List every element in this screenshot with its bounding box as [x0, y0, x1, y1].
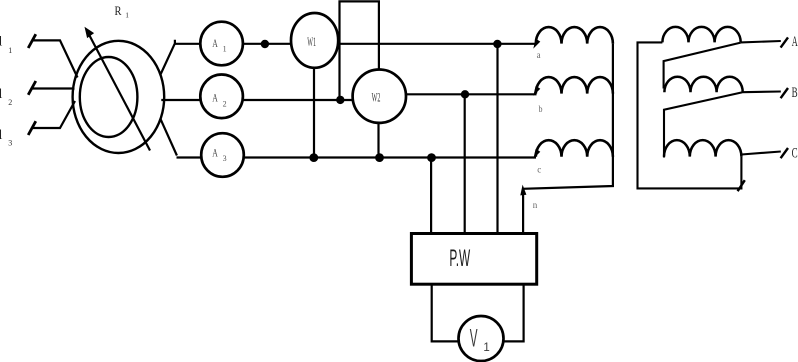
node dot row1 left of W1: [261, 40, 269, 48]
svg-text:2: 2: [8, 98, 12, 107]
svg-text:3: 3: [8, 139, 12, 148]
svg-text:2: 2: [223, 99, 227, 108]
wire W2 potential stub down: [377, 123, 379, 158]
svg-text:B: B: [792, 85, 798, 101]
svg-text:A: A: [212, 145, 218, 159]
ammeter A2: [200, 75, 243, 119]
terminal C: [741, 152, 780, 155]
svg-text:a: a: [537, 50, 541, 60]
svg-text:W1: W1: [307, 34, 316, 49]
switch tick L2: [28, 81, 36, 95]
wire variac to row2: [161, 99, 353, 101]
switch tick L3: [28, 121, 36, 135]
svg-text:V: V: [470, 325, 478, 353]
tick delta corner: [738, 180, 745, 191]
wire L2: [32, 87, 75, 89]
svg-text:W2: W2: [372, 89, 381, 104]
svg-text:l: l: [0, 87, 3, 102]
variac R1 outer: [73, 41, 165, 153]
svg-text:R: R: [115, 4, 123, 18]
svg-text:c: c: [537, 165, 541, 175]
neutral terminal arrow n: [520, 185, 526, 196]
node dot row3 tap: [427, 153, 436, 162]
svg-text:b: b: [539, 104, 543, 114]
svg-text:A: A: [212, 91, 218, 105]
wire P.W to V1 right: [503, 284, 523, 341]
wire variac to row1: [161, 40, 175, 75]
wire row2 tap to P.W: [464, 94, 466, 235]
winding c: [536, 140, 613, 157]
svg-text:3: 3: [223, 154, 227, 163]
wire P.W to V1 left: [432, 284, 459, 341]
svg-text:A: A: [212, 36, 218, 50]
wire delta diag 2: [664, 92, 742, 157]
variac R1 inner: [80, 57, 138, 137]
wire L1: [32, 40, 78, 77]
wire variac to row3: [161, 119, 177, 156]
wire row1: [175, 43, 537, 45]
svg-text:1: 1: [483, 342, 489, 354]
wire row3: [177, 156, 537, 158]
box P.W: [411, 234, 536, 285]
wire L3: [32, 101, 75, 128]
node dot row3 under W1: [309, 153, 318, 162]
wattmeter W2: [353, 70, 406, 123]
svg-text:1: 1: [125, 11, 129, 20]
svg-text:P.W: P.W: [449, 245, 470, 272]
svg-text:1: 1: [223, 45, 227, 54]
svg-text:l: l: [0, 128, 3, 143]
svg-text:1: 1: [8, 46, 12, 55]
wire star bus: [523, 44, 613, 235]
terminal A: [741, 41, 781, 42]
winding B2: [664, 77, 742, 93]
switch tick L1: [28, 34, 36, 48]
svg-text:l: l: [0, 35, 3, 50]
node dot row1 tap: [493, 40, 501, 48]
winding a: [536, 27, 613, 44]
wire potential bridge: [340, 1, 379, 100]
wire row3 tap to P.W: [430, 158, 432, 236]
wire delta diag 1: [664, 43, 741, 89]
winding A2: [662, 27, 740, 43]
node dot row3 under W2: [375, 153, 384, 162]
terminal B: [742, 90, 781, 93]
winding C2: [664, 140, 741, 157]
svg-text:n: n: [533, 200, 538, 210]
wattmeter W1: [291, 13, 338, 68]
winding b: [536, 77, 613, 94]
svg-text:C: C: [792, 146, 798, 162]
node dot row2 tap: [461, 90, 469, 98]
ammeter A1: [200, 22, 243, 66]
ammeter A3: [201, 133, 244, 177]
voltmeter V1: [459, 316, 504, 361]
wire W1 potential stub down: [313, 68, 315, 158]
node dot row2 bridge: [336, 96, 344, 104]
wire row2 right: [406, 93, 537, 95]
variac adjustment arrow: [89, 34, 150, 150]
wire delta left side: [638, 42, 742, 188]
svg-text:A: A: [792, 34, 798, 50]
wire row1 tap to P.W: [496, 44, 498, 235]
